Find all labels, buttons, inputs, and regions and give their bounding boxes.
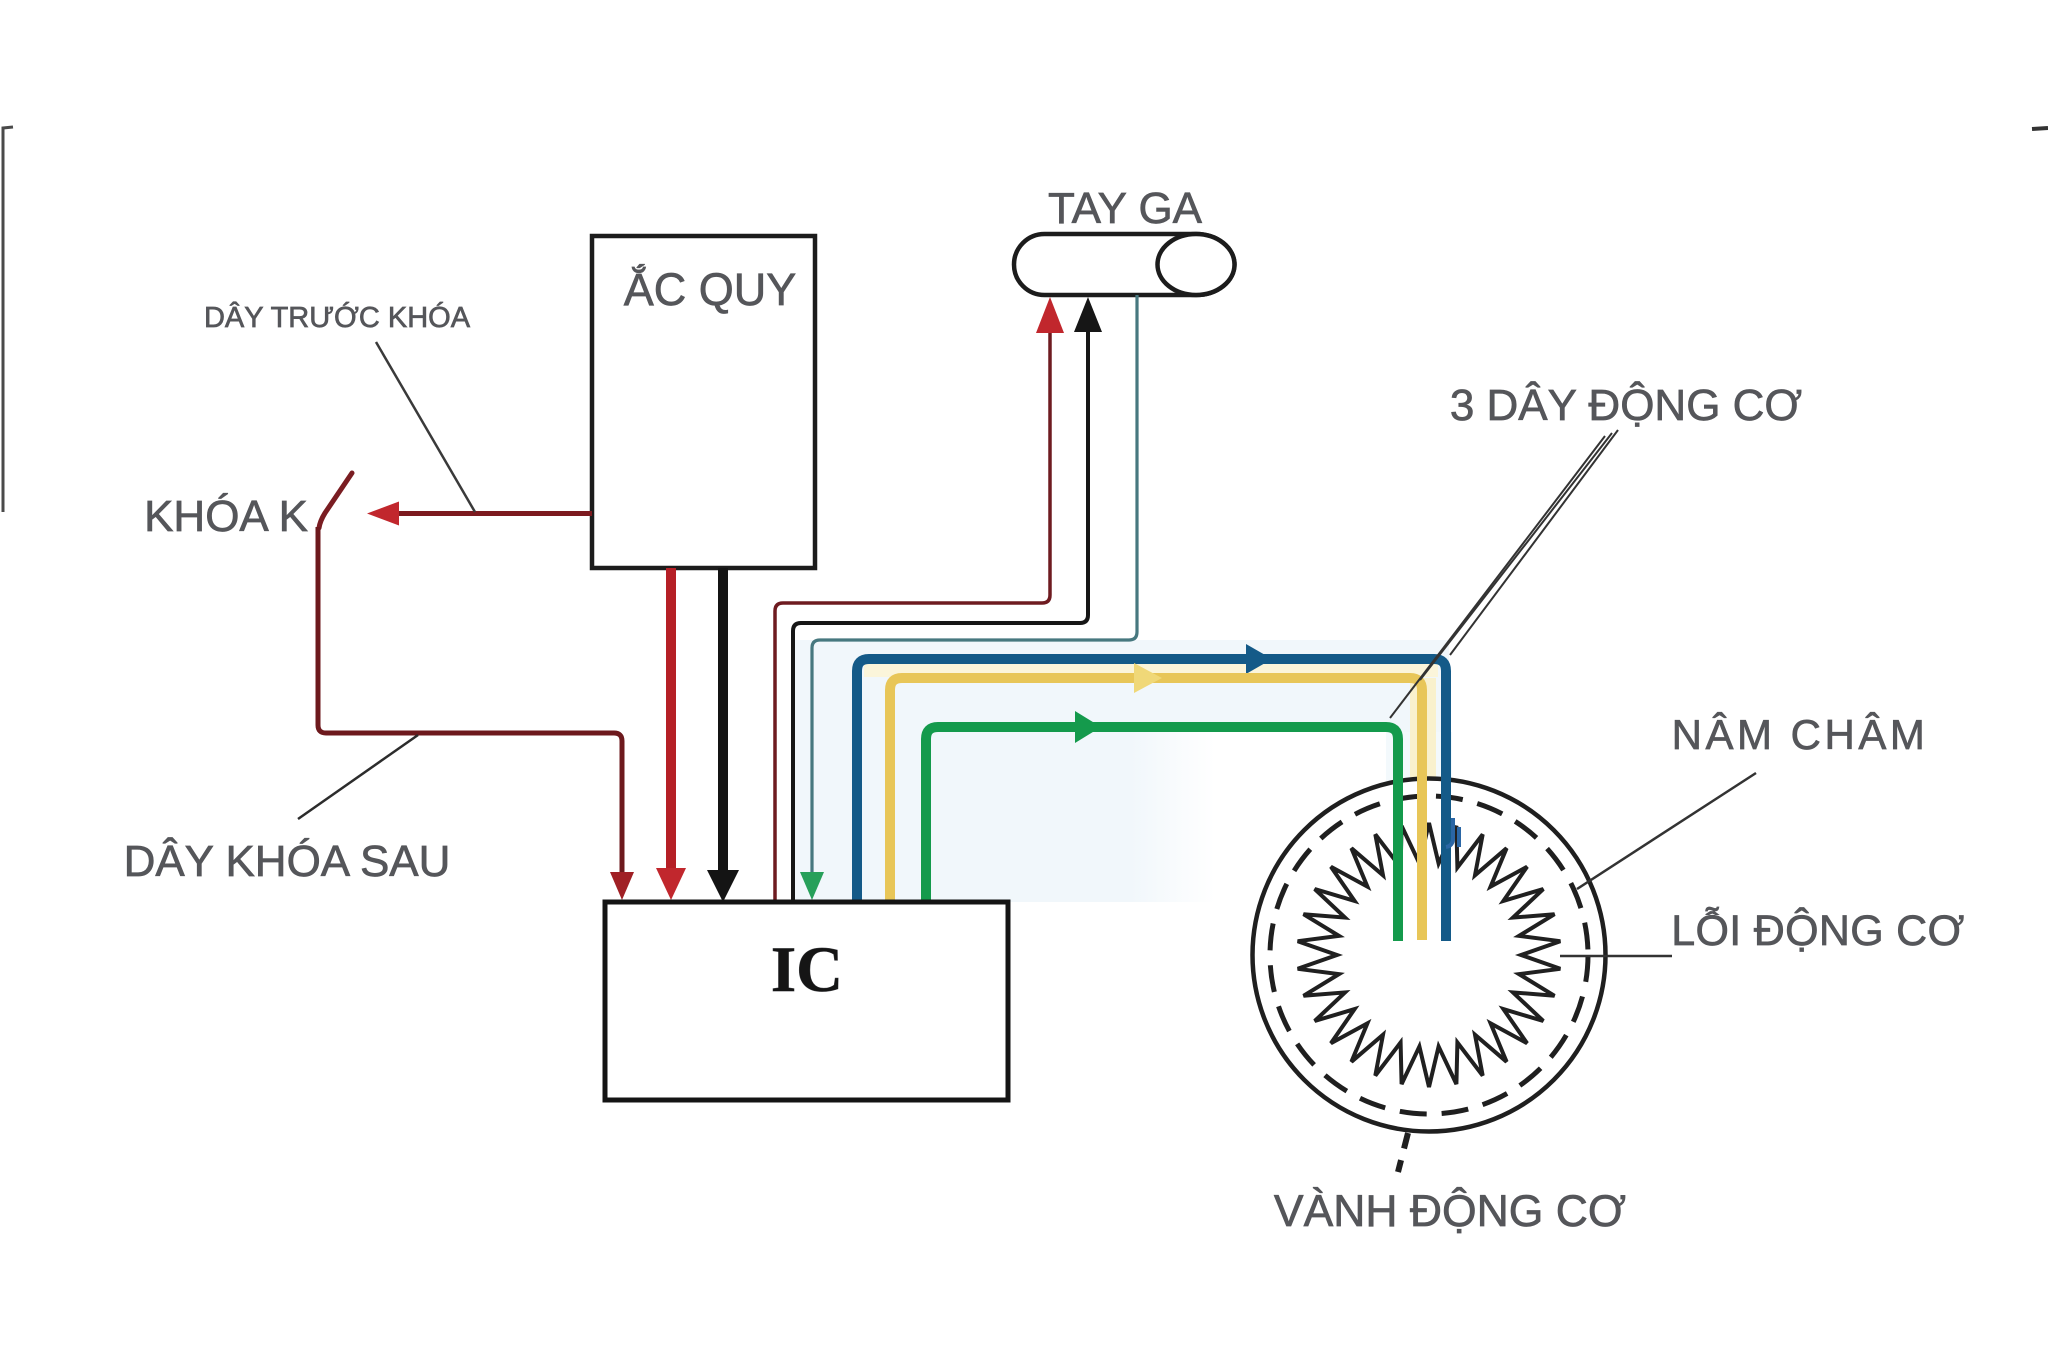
svg-text:3 DÂY ĐỘNG CƠ: 3 DÂY ĐỘNG CƠ	[1450, 380, 1802, 430]
leader line 2 to yellow corner	[1420, 433, 1612, 680]
motor dashed ring	[1270, 796, 1588, 1114]
leader line NÂM CHÂM	[1577, 773, 1756, 889]
motor outer circle	[1253, 779, 1606, 1132]
wire black battery to IC	[718, 568, 728, 874]
wire dark red switch loop down and right	[318, 527, 622, 878]
leader line LỖI ĐỘNG CƠ	[1560, 955, 1672, 958]
throttle TAY GA end ellipse	[1158, 234, 1235, 295]
arrowhead blue on horizontal	[1246, 644, 1272, 674]
svg-text:DÂY KHÓA SAU: DÂY KHÓA SAU	[124, 837, 451, 886]
wire red battery to IC	[666, 568, 676, 874]
wire yellow IC to motor	[890, 678, 1422, 940]
leader line 1 to green corner	[1390, 436, 1605, 718]
arrowhead black into throttle	[1074, 297, 1102, 332]
wire blue IC to motor	[857, 659, 1446, 941]
svg-text:IC: IC	[771, 934, 843, 1006]
background tint lower-left of wire bundle	[795, 732, 1215, 902]
crop mark left edge	[3, 127, 13, 512]
arrowhead yellow on horizontal	[1134, 663, 1162, 693]
arrowhead green teal wire into IC	[800, 872, 824, 900]
motor bottom dashed stub	[1398, 1133, 1408, 1172]
background tint along vertical wires to motor	[1386, 732, 1452, 937]
IC box	[605, 902, 1008, 1100]
arrowhead green on horizontal	[1075, 711, 1101, 743]
svg-text:DÂY TRƯỚC KHÓA: DÂY TRƯỚC KHÓA	[204, 301, 471, 334]
blue squiggle at motor entry	[1446, 818, 1459, 847]
background tint around wire bundle	[795, 640, 1449, 732]
background tint cream glow along yellow vertical to motor	[1410, 678, 1436, 938]
arrowhead red into throttle	[1036, 297, 1064, 333]
arrowhead red into IC	[656, 868, 686, 900]
wire black IC to throttle	[793, 314, 1088, 902]
wire teal throttle to IC	[812, 295, 1137, 876]
battery box ẮC QUY	[592, 236, 815, 568]
svg-text:VÀNH ĐỘNG CƠ: VÀNH ĐỘNG CƠ	[1274, 1186, 1626, 1236]
leader line DÂY TRƯỚC KHÓA	[376, 342, 475, 512]
svg-text:KHÓA K: KHÓA K	[144, 492, 308, 541]
arrowhead black into IC	[707, 870, 739, 902]
wire dark red IC to throttle	[775, 312, 1050, 902]
svg-text:TAY GA: TAY GA	[1048, 184, 1203, 233]
wire red battery to switch KHÓA K	[392, 511, 592, 516]
leader line 3 to blue corner	[1450, 430, 1618, 655]
crop mark right edge	[2032, 128, 2048, 129]
arrowhead red to switch	[367, 502, 399, 526]
background tint yellow band between blue and yellow wires	[864, 664, 1438, 677]
switch lever KHÓA K	[319, 473, 352, 528]
wire green IC to motor	[926, 727, 1398, 941]
leader line DÂY KHÓA SAU	[298, 735, 418, 819]
arrowhead dark red into IC	[610, 872, 634, 900]
svg-text:ẮC QUY: ẮC QUY	[624, 264, 797, 315]
throttle TAY GA body	[1014, 234, 1235, 295]
svg-text:NÂM CHÂM: NÂM CHÂM	[1672, 711, 1929, 758]
motor winding zigzag	[1298, 823, 1561, 1087]
svg-text:LỖI ĐỘNG CƠ: LỖI ĐỘNG CƠ	[1671, 906, 1964, 955]
